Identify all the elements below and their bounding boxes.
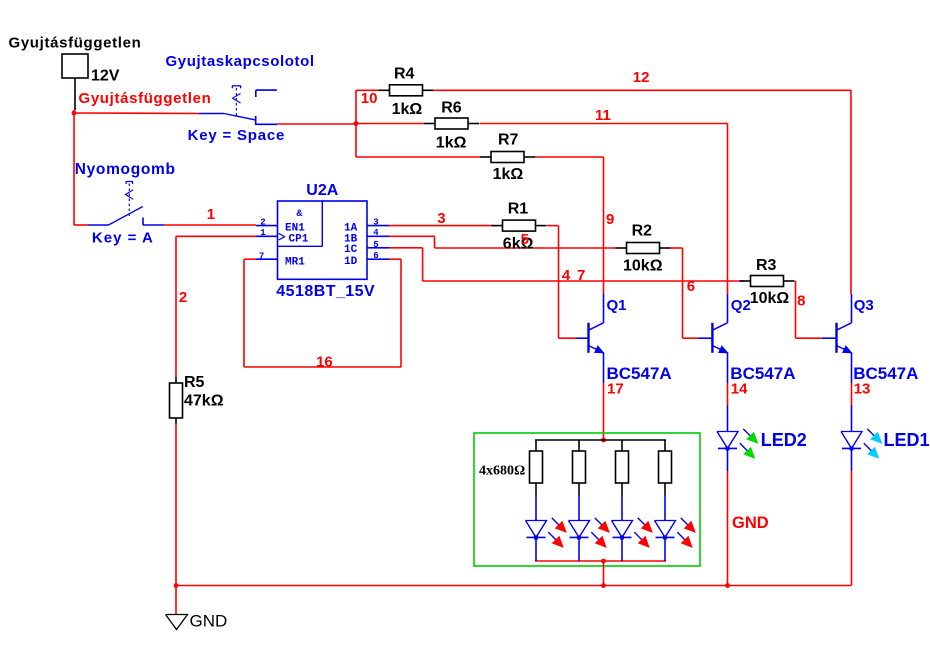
svg-text:5: 5 bbox=[373, 240, 378, 250]
svg-text:11: 11 bbox=[595, 107, 611, 124]
svg-text:16: 16 bbox=[316, 354, 333, 371]
svg-text:Q3: Q3 bbox=[854, 297, 874, 314]
svg-text:2: 2 bbox=[260, 217, 265, 227]
svg-text:3: 3 bbox=[437, 210, 445, 227]
svg-text:U2A: U2A bbox=[306, 182, 338, 199]
svg-text:6: 6 bbox=[687, 278, 695, 295]
svg-text:1kΩ: 1kΩ bbox=[392, 101, 423, 118]
svg-text:LED1: LED1 bbox=[884, 430, 930, 450]
svg-text:Gyujtásfüggetlen: Gyujtásfüggetlen bbox=[79, 90, 212, 107]
svg-text:Gyujtaskapcsolotol: Gyujtaskapcsolotol bbox=[166, 53, 315, 70]
svg-text:1: 1 bbox=[260, 228, 266, 238]
svg-text:8: 8 bbox=[797, 293, 805, 310]
svg-text:R4: R4 bbox=[394, 65, 415, 82]
svg-text:R7: R7 bbox=[498, 132, 519, 149]
svg-text:R5: R5 bbox=[184, 374, 205, 391]
svg-text:&: & bbox=[296, 209, 302, 220]
svg-text:4: 4 bbox=[562, 267, 571, 284]
svg-text:10kΩ: 10kΩ bbox=[750, 290, 790, 307]
svg-text:3: 3 bbox=[373, 217, 378, 227]
svg-text:CP1: CP1 bbox=[289, 233, 309, 245]
svg-text:2: 2 bbox=[179, 289, 187, 306]
svg-text:R6: R6 bbox=[441, 100, 462, 117]
svg-text:1kΩ: 1kΩ bbox=[493, 166, 524, 183]
svg-text:4x680Ω: 4x680Ω bbox=[479, 464, 525, 479]
svg-text:Q1: Q1 bbox=[607, 297, 627, 314]
svg-text:R1: R1 bbox=[508, 200, 529, 217]
svg-text:1D: 1D bbox=[344, 256, 358, 268]
svg-text:7: 7 bbox=[259, 251, 264, 261]
svg-text:7: 7 bbox=[577, 267, 585, 284]
svg-text:47kΩ: 47kΩ bbox=[184, 393, 224, 410]
svg-text:1kΩ: 1kΩ bbox=[436, 135, 467, 152]
svg-text:17: 17 bbox=[607, 381, 624, 398]
svg-text:MR1: MR1 bbox=[285, 257, 305, 269]
svg-text:1: 1 bbox=[207, 206, 215, 223]
svg-text:Nyomogomb: Nyomogomb bbox=[75, 161, 176, 178]
svg-text:12V: 12V bbox=[91, 68, 120, 85]
svg-text:1C: 1C bbox=[344, 244, 358, 256]
svg-text:R2: R2 bbox=[632, 223, 653, 240]
svg-text:10kΩ: 10kΩ bbox=[623, 258, 663, 275]
svg-text:6kΩ: 6kΩ bbox=[503, 236, 534, 253]
svg-text:R3: R3 bbox=[756, 257, 777, 274]
svg-text:12: 12 bbox=[633, 69, 650, 86]
svg-text:9: 9 bbox=[606, 211, 614, 228]
svg-text:14: 14 bbox=[731, 381, 748, 398]
svg-text:4518BT_15V: 4518BT_15V bbox=[276, 283, 375, 300]
svg-text:Gyujtásfüggetlen: Gyujtásfüggetlen bbox=[9, 35, 142, 52]
svg-text:GND: GND bbox=[732, 514, 769, 532]
svg-text:Key = A: Key = A bbox=[92, 229, 154, 246]
svg-text:Q2: Q2 bbox=[731, 297, 751, 314]
svg-text:5: 5 bbox=[521, 231, 529, 248]
svg-text:13: 13 bbox=[854, 381, 871, 398]
svg-text:6: 6 bbox=[373, 251, 378, 261]
svg-text:Key = Space: Key = Space bbox=[188, 127, 286, 144]
svg-text:LED2: LED2 bbox=[761, 430, 807, 450]
svg-text:10: 10 bbox=[361, 90, 378, 107]
svg-text:4: 4 bbox=[373, 228, 379, 238]
svg-text:GND: GND bbox=[190, 612, 228, 631]
